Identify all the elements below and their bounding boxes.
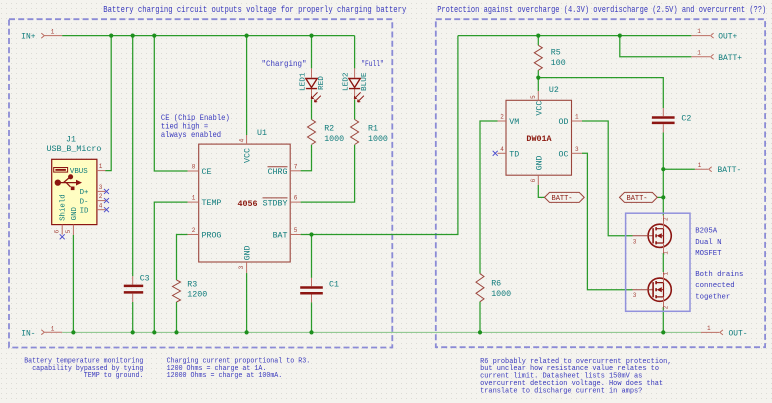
wire VBUS column [105,36,111,171]
svg-text:1: 1 [575,114,579,121]
svg-text:TEMP to ground.: TEMP to ground. [84,372,144,380]
resistor R3 [173,280,208,302]
svg-text:DW01A: DW01A [526,134,552,144]
junction bottom rail TEMP [152,330,156,334]
svg-text:B205A: B205A [695,228,718,236]
wire R5 junction to C2 column [538,78,663,108]
svg-text:U1: U1 [257,129,267,138]
svg-text:IN+: IN+ [21,33,35,42]
svg-text:2: 2 [500,114,504,121]
svg-text:6: 6 [54,229,61,233]
pin 3 OC [572,152,583,154]
pin 5 BAT [290,234,300,236]
svg-text:1: 1 [707,325,711,332]
wire C3 column bottom [132,294,134,302]
svg-text:Shield: Shield [59,194,67,221]
svg-text:GND: GND [535,155,544,170]
wire TEMP column [154,202,187,332]
pin 2 VM [498,120,507,122]
wire C2 bottom to mosfet [662,124,664,132]
no-connect D+ [104,189,109,194]
svg-text:6: 6 [530,178,537,182]
svg-text:GND: GND [71,206,79,220]
svg-text:1000: 1000 [368,135,388,144]
svg-text:4056: 4056 [237,199,257,209]
wire R5 top [537,36,539,46]
svg-text:IN-: IN- [21,329,35,338]
svg-text:LED2: LED2 [343,72,351,91]
svg-text:1: 1 [192,195,196,202]
wire LED1 to R2 [311,100,313,120]
svg-text:1: 1 [697,28,701,35]
svg-text:Both drains: Both drains [695,271,743,279]
USB trident icon [55,175,82,190]
pin 6 GND U2 [537,175,539,185]
svg-text:PROG: PROG [202,232,222,241]
svg-text:4: 4 [239,138,246,142]
wire LED2 column top [354,36,356,69]
no-connect D- [104,198,109,203]
junction R5 top [536,34,540,38]
svg-text:"Full": "Full" [361,59,384,69]
svg-text:3: 3 [238,265,245,269]
svg-text:Protection against overcharge: Protection against overcharge (4.3V) ove… [437,5,766,15]
svg-text:3: 3 [99,184,103,191]
wire OD to gate1 [582,121,633,236]
wire OUT+/BATT+ split [620,36,692,57]
junction BATT- label [661,195,665,199]
svg-text:2: 2 [99,193,103,200]
capacitor C1 [300,280,339,293]
no-connect TD [493,151,498,156]
svg-text:GND: GND [244,245,253,260]
svg-text:5: 5 [530,95,537,99]
junction OUT+ split [618,34,622,38]
svg-text:7: 7 [294,163,298,170]
junction bottom rail C1 [309,330,313,334]
svg-text:VBUS: VBUS [70,168,88,176]
op-amp U1 4056 [188,129,301,273]
wire J1 GND column [72,235,74,332]
svg-text:BATT+: BATT+ [718,54,742,63]
svg-text:USB_B_Micro: USB_B_Micro [47,144,102,154]
hierarchical pin OUT+ [691,28,737,41]
wire BAT to right box [301,36,458,235]
svg-text:C3: C3 [140,275,150,284]
svg-text:OUT-: OUT- [729,329,748,338]
svg-text:together: together [695,293,730,301]
junction bottom rail R3 [174,330,178,334]
wire R3 bottom [176,302,178,332]
svg-text:U2: U2 [549,86,559,95]
wire R1 to STDBY pin [301,145,355,202]
svg-text:R2: R2 [324,125,334,134]
junction R5 bottom [536,76,540,80]
junction bottom rail C3 [131,330,135,334]
junction BATT- connector [661,167,665,171]
transistor Q1 (upper MOSFET) [633,215,672,255]
svg-text:2: 2 [663,305,670,309]
global label BATT- (U2 GND) [545,192,585,203]
pin 1 OD [572,120,583,122]
svg-text:D+: D+ [80,189,89,197]
wire top rail right [458,35,692,37]
pin 8 CE [188,170,199,172]
svg-text:6: 6 [294,195,298,202]
dashed note box left [9,19,392,347]
pin 7 CHRG [290,170,300,172]
svg-text:ID: ID [80,208,89,216]
resistor R2 [308,120,345,145]
wire R2 to CHRG pin [301,145,312,171]
svg-text:R5: R5 [551,49,561,58]
svg-text:R3: R3 [187,281,197,290]
wire C3 column top [132,36,134,277]
hierarchical pin BATT+ [691,49,742,62]
svg-text:CE: CE [202,168,212,177]
svg-text:3: 3 [575,146,579,153]
svg-text:BATT-: BATT- [552,195,573,203]
svg-text:Dual N: Dual N [695,239,721,247]
dashed note box right [436,19,765,347]
svg-text:C1: C1 [329,280,339,289]
pin 5 VCC U2 [537,91,539,100]
wire VM to R6 [480,121,498,274]
svg-text:MOSFET: MOSFET [695,250,722,258]
wire GND U1 column [246,273,248,333]
svg-text:STDBY: STDBY [263,199,288,208]
hierarchical pin IN- [21,325,62,338]
svg-text:VM: VM [509,118,519,127]
transistor Q2 (lower MOSFET) [633,271,672,309]
resistor R6 [476,274,511,302]
junction bottom rail mosfet [661,330,665,334]
wire label2 stub [657,196,664,198]
junction bottom rail J1 [71,330,75,334]
wire PROG to R3 [177,235,188,281]
wire BATT- connector [663,168,695,170]
junction bottom rail U1 GND [245,330,249,334]
svg-text:12000 Ohms = charge at 100mA.: 12000 Ohms = charge at 100mA. [167,372,283,380]
svg-text:OC: OC [559,150,569,159]
pin 4 VCC [246,135,248,144]
svg-text:VCC: VCC [244,148,253,163]
mosfet bounding box [626,213,690,311]
svg-text:1: 1 [663,271,670,275]
svg-text:RED: RED [318,76,326,90]
wire mosfet mid [662,253,664,272]
svg-text:1: 1 [698,162,702,169]
svg-text:1: 1 [51,325,55,332]
wire OC to gate2 [582,153,633,289]
svg-text:translate to discharge current: translate to discharge current in amps? [480,388,642,396]
junction top rail x247 [245,34,249,38]
svg-text:BLUE: BLUE [361,72,369,91]
LED1 [300,68,327,102]
svg-text:1000: 1000 [324,135,344,144]
junction top rail x311 [309,34,313,38]
wire top rail left [62,35,354,37]
svg-text:J1: J1 [66,135,76,144]
svg-text:4: 4 [500,146,504,153]
svg-text:BATT-: BATT- [627,195,648,203]
svg-text:3: 3 [633,292,637,299]
pin 2 PROG [188,234,199,236]
svg-text:BATT-: BATT- [718,166,742,175]
junction top rail x111 [109,34,113,38]
svg-text:4: 4 [99,202,103,209]
svg-text:LED1: LED1 [300,72,308,91]
svg-text:1: 1 [51,29,55,36]
svg-text:VCC: VCC [535,101,544,116]
svg-text:5: 5 [65,229,72,233]
hierarchical pin OUT- [701,325,748,338]
hierarchical pin IN+ [21,29,62,42]
junction BAT C1 [309,232,313,236]
resistor R5 [534,45,565,70]
svg-text:2: 2 [663,217,670,221]
wire U2 GND to label [538,185,544,197]
connector J1 USB_B_Micro [47,135,110,239]
IC U2 DW01A [493,86,582,185]
svg-text:OD: OD [559,118,569,127]
pin 4 TD [498,152,507,154]
svg-text:Battery charging circuit outpu: Battery charging circuit outputs voltage… [103,5,406,15]
svg-text:1000: 1000 [491,290,511,299]
global label BATT- (mosfet) [620,192,658,203]
wire LED2 to R1 [354,100,356,120]
no-connect Shield [60,234,65,239]
svg-text:3: 3 [633,238,637,245]
wire C1 bottom [311,294,313,302]
hierarchical pin BATT- [695,162,741,175]
pin 3 GND [246,262,248,273]
wire R6 bottom [479,302,481,333]
svg-text:D-: D- [80,198,89,206]
svg-text:OUT+: OUT+ [718,33,737,42]
wire R5 bottom to VCC [537,70,539,91]
svg-text:R6: R6 [491,280,501,289]
svg-text:connected: connected [695,282,734,290]
LED2 [343,68,370,102]
capacitor C3 [124,275,150,293]
svg-text:2: 2 [192,227,196,234]
capacitor C2 [652,114,691,123]
wire bottom rail [62,331,701,333]
svg-text:R1: R1 [368,125,378,134]
svg-text:1: 1 [663,251,670,255]
pin 6 STDBY [290,201,300,203]
no-connect ID [104,207,109,212]
svg-text:TEMP: TEMP [202,199,222,208]
wire CE column [154,36,187,171]
wire mosfet bottom [662,307,664,332]
pin 1 TEMP [188,201,199,203]
svg-text:CE (Chip Enable): CE (Chip Enable) [161,113,230,123]
svg-text:1: 1 [99,163,103,170]
svg-text:100: 100 [551,59,566,68]
resistor R1 [351,120,388,145]
svg-text:"Charging": "Charging" [262,59,307,69]
svg-text:5: 5 [294,227,298,234]
USB plug icon [54,168,68,173]
svg-text:CHRG: CHRG [268,168,288,177]
svg-text:BAT: BAT [273,232,288,241]
svg-text:1200: 1200 [187,291,207,300]
wire C1 column [311,235,313,278]
junction bottom rail R6 [478,330,482,334]
svg-text:C2: C2 [681,114,691,123]
svg-text:1: 1 [697,49,701,56]
svg-text:TD: TD [509,150,519,159]
junction top rail x133 [131,34,135,38]
junction top rail x154 [152,34,156,38]
wire LED1 column top [311,36,313,69]
svg-text:8: 8 [192,164,196,171]
svg-text:always enabled: always enabled [161,130,221,140]
wire VCC U1 column [246,36,248,135]
